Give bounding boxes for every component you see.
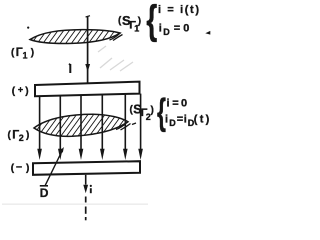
svg-text:1: 1 bbox=[23, 50, 28, 60]
svg-text:0: 0 bbox=[181, 98, 187, 110]
svg-text:D: D bbox=[169, 118, 176, 128]
svg-text:i: i bbox=[167, 98, 170, 110]
svg-text:): ) bbox=[25, 86, 28, 97]
svg-text:(: ( bbox=[12, 86, 16, 97]
svg-text:): ) bbox=[26, 130, 29, 141]
svg-text:(t): (t) bbox=[194, 114, 210, 126]
svg-text:=: = bbox=[174, 23, 180, 35]
svg-text:2: 2 bbox=[19, 133, 24, 143]
svg-text:(: ( bbox=[8, 130, 12, 141]
svg-text:): ) bbox=[26, 163, 29, 174]
svg-text:{: { bbox=[146, 0, 157, 42]
svg-text:=: = bbox=[177, 114, 183, 126]
svg-text:D: D bbox=[40, 186, 49, 200]
svg-text:+: + bbox=[18, 85, 23, 95]
svg-text:i: i bbox=[184, 114, 187, 126]
svg-text:): ) bbox=[31, 48, 34, 59]
svg-text:): ) bbox=[138, 16, 141, 27]
svg-text:i: i bbox=[165, 114, 168, 126]
svg-text:): ) bbox=[151, 105, 154, 116]
svg-text:D: D bbox=[163, 27, 170, 37]
svg-text:–: – bbox=[16, 161, 22, 173]
svg-text:{: { bbox=[157, 91, 166, 132]
svg-text:i = i(t): i = i(t) bbox=[158, 4, 199, 16]
svg-text:=: = bbox=[172, 98, 178, 110]
svg-text:i: i bbox=[159, 23, 162, 35]
svg-text:(: ( bbox=[11, 163, 15, 174]
svg-text:(: ( bbox=[11, 48, 15, 59]
svg-text:0: 0 bbox=[183, 23, 189, 35]
